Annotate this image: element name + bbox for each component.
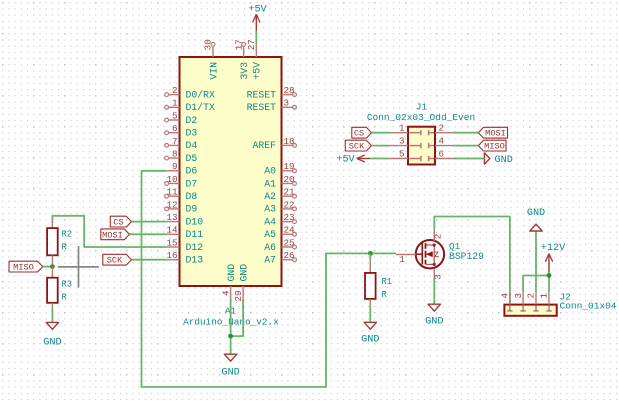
svg-text:21: 21 — [284, 187, 296, 198]
wire D12 to R2 — [52, 216, 166, 247]
pin 18 AREF — [252, 136, 296, 151]
power GND at J1 pin6 (rotated) — [484, 153, 512, 166]
svg-text:+5V: +5V — [248, 4, 267, 15]
pin 5 D2 — [165, 110, 198, 125]
svg-text:+5V: +5V — [252, 62, 263, 80]
pin 1 D1/TX — [165, 98, 215, 113]
svg-text:25: 25 — [284, 237, 295, 248]
svg-text:GND: GND — [495, 155, 513, 166]
svg-text:SCK: SCK — [107, 256, 123, 266]
svg-text:D13: D13 — [186, 255, 204, 266]
svg-text:9: 9 — [172, 161, 178, 172]
svg-text:CS: CS — [354, 129, 364, 139]
svg-text:17: 17 — [233, 39, 244, 50]
pin 2 J2 — [526, 292, 537, 304]
svg-text:23: 23 — [284, 212, 295, 223]
svg-text:AREF: AREF — [252, 140, 276, 151]
svg-text:RESET: RESET — [247, 89, 277, 100]
power +12V — [541, 243, 566, 272]
pin 1 gate — [396, 254, 416, 265]
svg-text:MOSI: MOSI — [485, 129, 506, 139]
svg-text:D11: D11 — [186, 229, 204, 240]
resistor R2 — [47, 219, 72, 267]
pin 30 VIN — [203, 39, 220, 79]
svg-text:3: 3 — [399, 135, 405, 146]
pin 28 RESET — [247, 85, 297, 100]
svg-text:SCK: SCK — [349, 142, 365, 152]
svg-text:2: 2 — [439, 123, 445, 134]
ref A1 — [225, 306, 237, 317]
wire J2 pin3 branch — [523, 276, 549, 293]
global label SCK — [103, 254, 132, 265]
connector J1 body — [408, 127, 435, 165]
svg-text:A7: A7 — [264, 255, 276, 266]
svg-text:D1/TX: D1/TX — [186, 102, 216, 113]
svg-text:D9: D9 — [186, 204, 198, 215]
pin 1 J1 — [390, 123, 408, 134]
global label MISO at J1 — [478, 140, 506, 151]
pin 21 A2 — [264, 187, 296, 202]
svg-text:VIN: VIN — [208, 62, 219, 80]
pin 3 J2 — [513, 292, 524, 304]
svg-text:3: 3 — [284, 98, 290, 109]
global label MISO — [9, 261, 43, 272]
svg-text:27: 27 — [246, 39, 257, 50]
svg-text:26: 26 — [284, 250, 295, 261]
svg-text:R3: R3 — [62, 280, 73, 290]
svg-text:D3: D3 — [186, 128, 198, 139]
svg-text:A4: A4 — [264, 216, 276, 227]
wire SCK to J1 pin3 — [372, 145, 390, 147]
svg-text:29: 29 — [233, 291, 244, 302]
IC A1 Arduino_Nano_v2.x body — [180, 57, 282, 286]
svg-text:6: 6 — [172, 123, 178, 134]
wire MOSI to D11 — [129, 233, 166, 235]
junction GND pins — [228, 334, 233, 339]
global label CS at J1 — [352, 127, 372, 138]
svg-text:R2: R2 — [62, 230, 73, 240]
svg-text:GND: GND — [226, 264, 237, 282]
svg-text:Conn_02x03_Odd_Even: Conn_02x03_Odd_Even — [367, 112, 475, 123]
pin 20 A1 — [264, 174, 296, 189]
svg-text:R1: R1 — [382, 277, 393, 287]
svg-text:24: 24 — [284, 225, 296, 236]
svg-text:18: 18 — [284, 136, 295, 147]
svg-text:A5: A5 — [264, 229, 276, 240]
wire R1 to GND — [369, 305, 371, 323]
pin 3 source — [433, 268, 444, 280]
svg-text:D7: D7 — [186, 178, 198, 189]
svg-text:A6: A6 — [264, 242, 276, 253]
svg-text:RESET: RESET — [247, 102, 277, 113]
svg-text:GND: GND — [238, 264, 249, 282]
pin 12 D9 — [165, 199, 198, 214]
pin 17 3V3 — [233, 39, 250, 79]
pin 25 A6 — [264, 237, 296, 252]
ref J1 — [416, 102, 428, 113]
pin 13 D10 — [166, 212, 203, 227]
svg-text:28: 28 — [284, 85, 295, 96]
global label SCK at J1 — [345, 140, 371, 151]
svg-text:GND: GND — [361, 335, 379, 346]
wire MISO to junction — [43, 266, 53, 268]
wire J2 pin1 to +12V — [548, 272, 550, 292]
svg-text:2: 2 — [433, 234, 444, 240]
svg-text:R: R — [382, 290, 388, 300]
wire CS to D10 — [132, 221, 167, 223]
svg-text:+12V: +12V — [541, 243, 566, 254]
pin 11 D8 — [165, 187, 198, 202]
pin 16 D13 — [166, 250, 203, 265]
svg-text:J1: J1 — [416, 102, 428, 113]
resistor R3 — [47, 267, 72, 308]
value BSP129 — [449, 251, 484, 262]
pin 6 J1 — [435, 148, 453, 159]
svg-text:A1: A1 — [264, 178, 276, 189]
cursor crosshair — [58, 246, 99, 288]
ground below Q1 — [425, 304, 443, 327]
pin 4 J1 — [435, 135, 453, 146]
svg-text:D10: D10 — [186, 216, 204, 227]
value Conn_02x03_Odd_Even — [367, 112, 475, 123]
power +5V at J1 pin5 (rotated) — [336, 155, 370, 166]
svg-text:+5V: +5V — [336, 155, 355, 166]
svg-text:2: 2 — [172, 85, 178, 96]
pin 8 D5 — [165, 149, 198, 164]
pin 23 A4 — [264, 212, 296, 227]
value Conn_01x04 — [560, 300, 617, 311]
svg-text:8: 8 — [172, 149, 178, 160]
pin 4 GND — [220, 264, 237, 299]
global label MOSI at J1 — [478, 127, 507, 138]
junction R1 — [368, 251, 373, 256]
transistor Q1 BSP129 — [416, 240, 444, 268]
pin 22 A3 — [264, 199, 296, 214]
wire CS to J1 pin1 — [372, 132, 390, 134]
connector J2 body — [504, 305, 556, 316]
wire Q1 source to GND — [433, 278, 435, 304]
svg-text:10: 10 — [166, 174, 177, 185]
svg-text:GND: GND — [527, 208, 545, 219]
svg-text:BSP129: BSP129 — [449, 251, 484, 262]
svg-text:MOSI: MOSI — [102, 230, 123, 240]
pin 1 J2 — [539, 292, 550, 304]
svg-text:D0/RX: D0/RX — [186, 89, 216, 100]
svg-text:5: 5 — [172, 110, 178, 121]
pin 15 D12 — [166, 237, 203, 252]
pin 29 GND — [233, 264, 250, 302]
svg-text:6: 6 — [439, 148, 445, 159]
wire J1 pin2 to MOSI — [453, 132, 478, 134]
wire R3 to GND — [51, 308, 53, 322]
svg-text:2: 2 — [526, 293, 537, 299]
wire pin4 to GND — [230, 299, 232, 355]
svg-text:MISO: MISO — [13, 263, 34, 273]
svg-text:3: 3 — [513, 293, 524, 299]
svg-text:A2: A2 — [264, 191, 276, 202]
svg-text:16: 16 — [166, 250, 177, 261]
pin 27 +5V — [246, 39, 263, 79]
pin 7 D4 — [165, 136, 198, 151]
svg-text:7: 7 — [172, 136, 178, 147]
svg-text:12: 12 — [166, 199, 177, 210]
global label CS — [110, 216, 131, 227]
pin 9 D6 — [167, 161, 198, 176]
pin 24 A5 — [264, 225, 296, 240]
svg-text:4: 4 — [220, 290, 231, 296]
svg-text:20: 20 — [284, 174, 295, 185]
svg-text:D8: D8 — [186, 191, 198, 202]
svg-text:15: 15 — [166, 237, 177, 248]
svg-text:D2: D2 — [186, 115, 198, 126]
pin 3 RESET — [247, 98, 297, 113]
svg-text:GND: GND — [221, 368, 239, 379]
svg-text:22: 22 — [284, 199, 295, 210]
svg-text:GND: GND — [43, 338, 61, 349]
pin 5 J1 — [390, 148, 408, 159]
svg-text:MISO: MISO — [484, 142, 505, 152]
pin 2 D0/RX — [165, 85, 215, 100]
wire SCK to D13 — [132, 259, 167, 261]
svg-text:D4: D4 — [186, 140, 198, 151]
value Arduino_Nano_v2.x — [183, 317, 279, 328]
svg-text:4: 4 — [439, 135, 445, 146]
wire J1 pin6 to GND — [453, 158, 484, 160]
ref Q1 — [449, 241, 461, 252]
power +5V — [248, 4, 267, 30]
junction J2 pin1 — [547, 273, 552, 278]
wire J2 pin2 to GND — [535, 231, 537, 292]
svg-text:1: 1 — [399, 123, 405, 134]
wire pin29 to junction — [231, 299, 244, 337]
junction R2/R3/MISO — [50, 264, 55, 269]
pin 19 A0 — [264, 161, 296, 176]
ground below R3 — [43, 322, 61, 348]
wire D6 to Q1 gate — [142, 171, 397, 387]
wire +5V to pin 27 — [255, 31, 257, 45]
svg-text:1: 1 — [539, 293, 550, 299]
svg-text:5: 5 — [399, 148, 405, 159]
svg-text:D6: D6 — [186, 166, 198, 177]
pin 14 D11 — [166, 225, 203, 240]
svg-text:A3: A3 — [264, 204, 276, 215]
svg-text:1: 1 — [172, 98, 178, 109]
wire +5V to J1 pin5 — [370, 158, 390, 160]
pin 26 A7 — [264, 250, 296, 265]
svg-text:D12: D12 — [186, 242, 204, 253]
pin 3 J1 — [390, 135, 408, 146]
wire J1 pin4 to MISO — [453, 145, 478, 147]
svg-text:14: 14 — [166, 225, 178, 236]
pin 6 D3 — [165, 123, 198, 138]
svg-text:Conn_01x04: Conn_01x04 — [560, 300, 617, 311]
pin 10 D7 — [165, 174, 198, 189]
pin 4 J2 — [500, 292, 511, 304]
svg-text:CS: CS — [113, 218, 123, 228]
wire Q1 drain to J2 pin 4 — [434, 217, 510, 305]
svg-text:30: 30 — [203, 39, 214, 50]
ref J2 — [560, 292, 571, 303]
svg-text:13: 13 — [166, 212, 177, 223]
svg-text:R: R — [62, 293, 68, 303]
svg-text:19: 19 — [284, 161, 295, 172]
ground above J2 pin2 (flipped) — [527, 208, 545, 231]
ground below R1 — [361, 322, 379, 345]
svg-text:3V3: 3V3 — [239, 62, 250, 80]
svg-text:4: 4 — [500, 293, 511, 299]
pin 2 drain — [433, 229, 444, 241]
global label MOSI — [101, 229, 130, 240]
svg-text:GND: GND — [425, 317, 443, 328]
svg-text:11: 11 — [166, 187, 178, 198]
pin 2 J1 — [435, 123, 453, 134]
ground below Arduino — [221, 354, 239, 378]
svg-text:R: R — [62, 243, 68, 253]
resistor R1 — [365, 253, 392, 304]
svg-text:1: 1 — [399, 254, 405, 265]
svg-text:D5: D5 — [186, 153, 198, 164]
svg-text:A0: A0 — [264, 166, 276, 177]
